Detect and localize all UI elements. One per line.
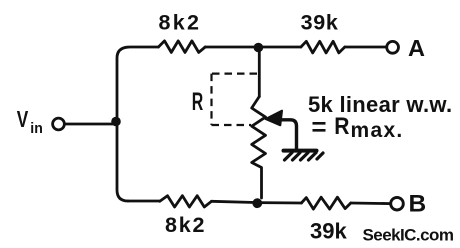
junction dot top node — [254, 43, 264, 53]
junction dot bottom node — [252, 198, 262, 208]
svg-text:A: A — [408, 35, 425, 61]
svg-text:SeekIC.com: SeekIC.com — [363, 226, 454, 245]
wiper arrow head — [266, 111, 283, 126]
resistor R top-left 8k2 — [158, 41, 205, 53]
svg-text:8k2: 8k2 — [165, 213, 206, 237]
wire to terminal A — [345, 46, 387, 49]
terminal circle A — [387, 41, 399, 53]
svg-text:in: in — [30, 120, 43, 137]
ground hatch lines — [285, 153, 324, 160]
resistor top-right 39k — [301, 41, 345, 53]
wiper arrow shaft to ground — [277, 120, 297, 149]
resistor bottom-right 39k — [301, 197, 350, 209]
svg-text:R: R — [334, 113, 349, 140]
wire bottom middle — [212, 201, 302, 203]
svg-text:39k: 39k — [301, 11, 339, 35]
svg-text:R: R — [192, 88, 204, 116]
svg-text:8k2: 8k2 — [159, 10, 202, 34]
potentiometer vertical branch wire top — [258, 47, 261, 97]
wire to terminal B — [351, 202, 391, 205]
svg-text:5k linear w.w.: 5k linear w.w. — [308, 92, 452, 117]
svg-text:39k: 39k — [310, 219, 347, 244]
label = Rmax. — [313, 123, 326, 130]
svg-text:V: V — [17, 106, 29, 132]
potentiometer zigzag body — [252, 97, 266, 199]
terminal circle Vin — [53, 118, 65, 130]
terminal circle B — [391, 197, 404, 210]
resistor R bottom-left 8k2 — [160, 196, 212, 207]
wire bottom-left — [128, 200, 160, 203]
svg-text:max.: max. — [351, 119, 404, 142]
wire left bus vertical with corners — [117, 47, 158, 201]
junction dot Vin node — [111, 117, 121, 127]
ground bar — [284, 149, 317, 153]
wire Vin to bus — [66, 123, 118, 126]
svg-text:B: B — [409, 191, 427, 218]
wire top middle — [205, 46, 301, 49]
dashed box around potentiometer R — [212, 74, 259, 125]
